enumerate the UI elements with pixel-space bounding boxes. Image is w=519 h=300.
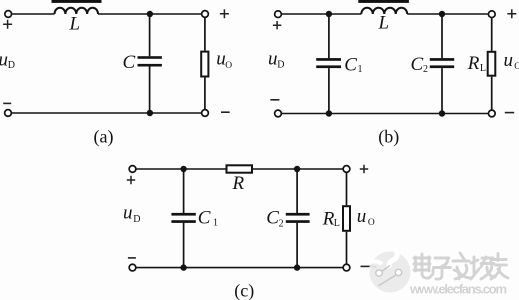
svg-text:O: O	[514, 62, 519, 72]
svg-text:L: L	[334, 218, 340, 229]
capacitor C2 plates (b)	[430, 58, 454, 61]
svg-text:L: L	[378, 13, 390, 34]
svg-text:C: C	[266, 208, 279, 229]
svg-text:O: O	[225, 61, 232, 71]
watermark chinese glyphs	[414, 253, 508, 279]
svg-text:C: C	[198, 208, 211, 229]
wire C1 vertical (b)	[328, 14, 330, 114]
inductor L coil (b)	[361, 8, 407, 14]
resistor R box (c)	[227, 165, 253, 172]
svg-text:C: C	[123, 52, 136, 73]
svg-text:u: u	[123, 203, 133, 224]
junction bottom-1 (b)	[326, 110, 332, 116]
svg-text:1: 1	[358, 64, 363, 75]
wire top (c)	[136, 168, 342, 170]
terminal bottom-right (c)	[343, 264, 350, 271]
terminal top-left (b)	[275, 11, 282, 18]
svg-text:R: R	[232, 173, 245, 194]
junction top-2 (b)	[439, 11, 445, 17]
terminal bottom-left (a)	[5, 110, 12, 117]
resistor load box (a)	[201, 52, 208, 77]
capacitor C1 plates (c)	[171, 213, 195, 216]
junction bottom-1 (c)	[180, 264, 186, 270]
wire capacitor C vertical (a)	[149, 14, 151, 113]
junction bottom-2 (b)	[439, 110, 445, 116]
minus bottom-right (b)	[505, 112, 514, 114]
svg-text:C: C	[344, 54, 357, 75]
wire bottom (b)	[282, 113, 488, 115]
terminal top-left (a)	[5, 11, 12, 18]
plus top-right (c)	[360, 165, 368, 173]
plus top-right (a)	[220, 9, 229, 18]
svg-text:2: 2	[279, 218, 284, 229]
wire top (a)	[12, 13, 201, 15]
svg-text:L: L	[480, 63, 486, 74]
terminal bottom-left (b)	[275, 110, 282, 117]
minus bottom-right (a)	[221, 111, 230, 113]
watermark logo circle	[368, 248, 411, 293]
svg-text:D: D	[8, 60, 15, 71]
svg-text:D: D	[277, 59, 284, 70]
svg-text:www.elecfans.com: www.elecfans.com	[409, 282, 507, 297]
resistor RL box (c)	[343, 206, 350, 231]
wire C2 vertical (c)	[296, 169, 298, 268]
terminal bottom-right (a)	[202, 110, 209, 117]
svg-text:(a): (a)	[94, 127, 114, 148]
watermark chinese text (approximated strokes)	[414, 253, 509, 280]
svg-text:D: D	[133, 214, 140, 225]
minus bottom-left (b)	[270, 99, 279, 101]
capacitor C1 plates (b)	[316, 58, 341, 61]
inductor L coil (a)	[55, 8, 99, 14]
svg-text:(b): (b)	[378, 126, 399, 147]
plus top-left (c)	[127, 176, 135, 184]
junction bottom (a)	[147, 110, 153, 116]
wire top (b)	[282, 13, 488, 15]
svg-text:(c): (c)	[234, 281, 254, 300]
svg-text:L: L	[69, 14, 81, 35]
wire RL vertical (b)	[491, 18, 493, 110]
junction top-1 (b)	[326, 11, 332, 17]
inductor L core bar (b)	[358, 0, 409, 3]
terminal top-right (a)	[202, 11, 209, 18]
capacitor C plates (a)	[138, 56, 162, 59]
wire bottom (c)	[136, 267, 342, 269]
wire C1 vertical (c)	[183, 169, 185, 268]
svg-text:u: u	[357, 206, 367, 227]
capacitor C2 plates (c)	[286, 213, 310, 216]
minus bottom-right (c)	[361, 265, 370, 267]
terminal bottom-left (c)	[129, 264, 136, 271]
wire load vertical (a)	[204, 18, 206, 109]
watermark emboss shadow	[415, 254, 509, 280]
wire RL vertical (c)	[346, 173, 348, 264]
svg-text:u: u	[504, 50, 514, 71]
svg-text:R: R	[467, 53, 480, 74]
junction top-2 (c)	[294, 166, 300, 172]
plus top-left (b)	[273, 21, 281, 29]
junction bottom-2 (c)	[294, 264, 300, 270]
terminal top-left (c)	[129, 166, 136, 173]
svg-text:u: u	[268, 49, 278, 70]
terminal bottom-right (b)	[488, 110, 495, 117]
resistor RL box (b)	[488, 52, 496, 76]
terminal top-right (c)	[343, 166, 350, 173]
wire C2 vertical (b)	[441, 14, 443, 114]
wire bottom (a)	[12, 112, 201, 114]
junction top (a)	[147, 11, 153, 17]
svg-text:1: 1	[213, 218, 218, 229]
plus top-right (b)	[507, 9, 516, 18]
svg-text:O: O	[368, 218, 375, 228]
terminal top-right (b)	[488, 11, 495, 18]
svg-text:2: 2	[423, 64, 428, 75]
plus top-left (a)	[3, 20, 12, 29]
svg-text:C: C	[411, 54, 424, 75]
svg-text:u: u	[0, 49, 8, 70]
minus bottom-left (c)	[128, 257, 136, 259]
minus bottom-left (a)	[3, 102, 11, 104]
junction top-1 (c)	[180, 166, 186, 172]
inductor L core bar (a)	[52, 0, 102, 3]
